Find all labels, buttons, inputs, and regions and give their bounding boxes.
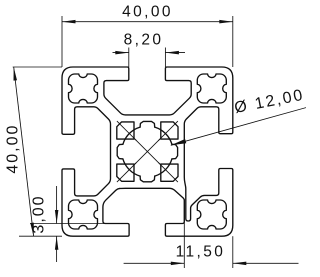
svg-text:11,50: 11,50 <box>176 244 226 261</box>
keyway groove left <box>117 144 123 159</box>
svg-text:40,00: 40,00 <box>122 3 173 20</box>
dim 40,00 top: dimension line <box>62 21 233 23</box>
dim 40,00 top: extension lines <box>61 16 63 67</box>
dim 40,00 left: extension lines <box>13 66 62 68</box>
corner pocket top-left <box>117 122 134 139</box>
screw channel top-right <box>197 74 226 103</box>
dim 3,00: extension line across part <box>30 223 104 225</box>
corner 45-degree centerlines <box>117 121 136 141</box>
screw channel bottom-left <box>69 200 98 229</box>
keyway groove bottom <box>140 176 155 182</box>
corner pocket bottom-right <box>161 164 178 181</box>
profile outline <box>62 67 233 236</box>
svg-text:3,00: 3,00 <box>31 194 48 233</box>
dim 8,20: extension lines <box>128 48 130 68</box>
screw channel bottom-right <box>197 200 226 229</box>
corner pocket top-right <box>161 122 178 139</box>
dim 40,00 left: dimension line (slightly slanted as in original) <box>14 67 34 236</box>
central bore circle (interrupted at keyway grooves) <box>155 127 172 144</box>
dim 8,20: dimension line tails <box>113 52 129 54</box>
centerline cross <box>134 138 161 165</box>
leader line for diameter 12,00 <box>171 108 306 146</box>
corner pocket bottom-left <box>117 164 134 181</box>
svg-text:8,20: 8,20 <box>124 32 164 49</box>
dim 11,50: extension lines <box>183 199 185 268</box>
dim 11,50: dimension line tails <box>124 262 185 264</box>
svg-text:40,00: 40,00 <box>5 124 22 174</box>
dim 3,00: dimension line tails <box>56 186 58 224</box>
keyway groove top <box>140 121 155 127</box>
screw channel top-left <box>69 74 98 103</box>
keyway groove right <box>172 144 178 159</box>
arrowheads <box>62 20 76 24</box>
